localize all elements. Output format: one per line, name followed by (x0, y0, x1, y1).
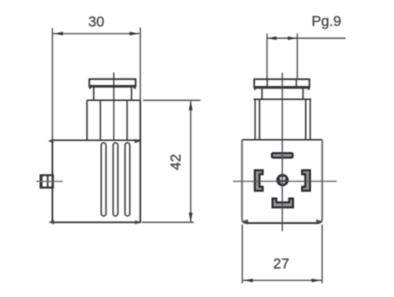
dim 30: dimension line with arrows (53, 33, 140, 35)
dim 42: dimension line with arrows (190, 101, 192, 222)
svg-text:30: 30 (88, 15, 104, 31)
right pin socket (302, 170, 310, 190)
svg-text:42: 42 (168, 154, 184, 170)
corner accents (junction arrows, left view) (48, 139, 142, 225)
protrusion centerline (36, 180, 63, 182)
dim 30: extension lines (52, 28, 140, 141)
bottom pin socket (U shape) (273, 199, 294, 208)
svg-text:Pg.9: Pg.9 (311, 14, 341, 30)
svg-text:27: 27 (273, 256, 289, 272)
grip slots (3 grooves) (101, 143, 130, 216)
gland block (knurled nut, side view) (87, 100, 140, 140)
cap (screw/gland head, side view) (89, 79, 136, 89)
center screw hole (276, 174, 288, 186)
gland neck (front view) (262, 87, 303, 99)
left pin socket (255, 170, 263, 190)
square body (front view) (242, 139, 322, 141)
centerline (right view horizontal axis) (233, 180, 337, 182)
corner accents (junction arrows, right view) (241, 219, 323, 224)
neck below cap (94, 86, 132, 100)
body bottom edge emphasized (245, 222, 319, 224)
side protrusion (screw boss on left face) (41, 175, 53, 188)
dim 27: dimension line with arrows (243, 279, 322, 281)
gland cap (front view) (254, 79, 310, 90)
centerline (right view vertical axis) (281, 73, 283, 232)
body right edge (shared with extension) (139, 100, 141, 222)
body outline (left view) (52, 140, 141, 222)
dim Pg.9: extension lines (267, 34, 297, 80)
top slot (pin 1 socket) (272, 153, 293, 158)
centerline (left view vertical axis) (113, 73, 115, 141)
dim Pg.9: dimension line + leader (267, 37, 346, 39)
dim 42: extension lines (143, 99, 200, 101)
gland block (front view) (254, 99, 312, 140)
dim 27: extension lines (242, 225, 322, 284)
